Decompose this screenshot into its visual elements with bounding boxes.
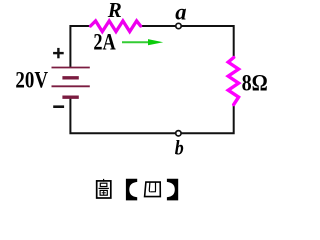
battery 20V: plate 2 short thick	[62, 76, 78, 79]
svg-text:a: a	[175, 0, 186, 25]
svg-text:20V: 20V	[15, 68, 48, 93]
battery 20V: plate 4 short thick	[62, 95, 78, 98]
wire top-left segment	[70, 26, 91, 68]
label 2A	[93, 30, 116, 55]
svg-text:R: R	[107, 0, 122, 22]
caption closing lenticular bracket	[167, 179, 178, 201]
minus sign	[53, 105, 64, 108]
battery 20V: plate 1 long	[52, 67, 90, 69]
resistor R (horizontal zigzag)	[91, 21, 141, 32]
caption glyph TU (figure)	[97, 179, 111, 198]
label a	[175, 0, 186, 25]
node a (open circle)	[176, 23, 181, 28]
wire bottom-left segment	[70, 98, 233, 134]
resistor 8ohm (vertical zigzag)	[228, 58, 238, 105]
label R	[107, 0, 122, 22]
current arrow (green)	[122, 39, 163, 45]
svg-text:8Ω: 8Ω	[242, 71, 268, 96]
svg-text:2A: 2A	[93, 30, 116, 55]
label b	[175, 135, 184, 159]
label 20V	[15, 68, 48, 93]
plus sign	[53, 48, 64, 58]
battery 20V: plate 3 long	[52, 85, 90, 87]
wire top-right segment	[140, 26, 234, 58]
label 8ohm	[242, 71, 268, 96]
svg-text:b: b	[175, 135, 184, 159]
caption glyph SI (four)	[145, 182, 161, 197]
caption opening lenticular bracket	[126, 179, 137, 201]
node b (open circle)	[176, 131, 181, 136]
